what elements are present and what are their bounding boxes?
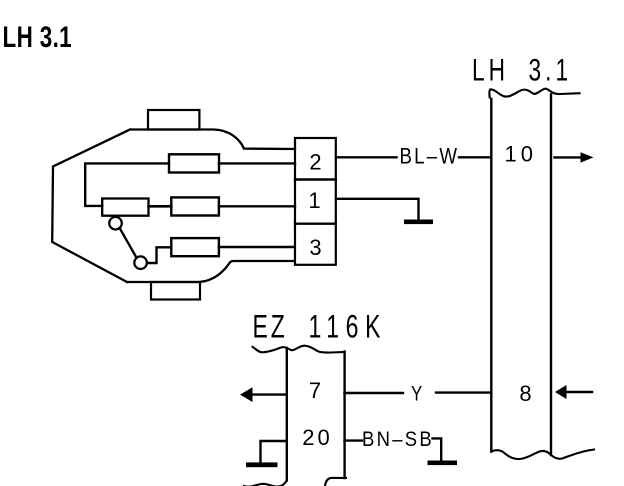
EZ box torn bottom left bbox=[244, 481, 287, 486]
bottom mounting lug bbox=[151, 282, 200, 300]
ground G2 bar bbox=[246, 462, 278, 467]
EZ box left edge bbox=[286, 348, 288, 481]
pin 10 arrowhead bbox=[581, 152, 594, 162]
svg-text:116K: 116K bbox=[309, 309, 388, 345]
svg-text:8: 8 bbox=[519, 381, 531, 406]
pin 8 input arrow line bbox=[567, 391, 593, 393]
wire pin 1 to ground bbox=[336, 199, 419, 220]
switch moving contact c2 bbox=[134, 256, 147, 269]
svg-text:LH: LH bbox=[472, 52, 509, 88]
svg-text:7: 7 bbox=[309, 378, 321, 403]
wire R1 left down to switch box bbox=[85, 163, 169, 206]
svg-text:3.1: 3.1 bbox=[529, 52, 573, 88]
LH box torn top edge bbox=[489, 89, 579, 98]
pin 7 output arrow line bbox=[252, 393, 287, 395]
svg-text:EZ: EZ bbox=[253, 309, 288, 345]
pin 10 output arrow line bbox=[555, 156, 582, 158]
switch pivot contact c1 bbox=[109, 217, 122, 230]
wire R2 right to pin 1 bbox=[219, 205, 295, 207]
switch body box bbox=[102, 199, 148, 216]
resistor R3 (bottom) bbox=[171, 238, 219, 256]
LH box right edge bbox=[550, 95, 552, 456]
connector divider 1/3 bbox=[295, 222, 336, 224]
throttle switch body outline bbox=[52, 130, 295, 283]
resistor R1 (top) bbox=[169, 154, 219, 172]
wire Y to LH pin 8 bbox=[436, 391, 491, 393]
LH box torn bottom edge bbox=[491, 450, 594, 460]
wire pin 20 to ground bbox=[261, 441, 287, 463]
svg-text:BN–SB: BN–SB bbox=[362, 428, 434, 451]
LH box left edge bbox=[490, 99, 492, 452]
resistor R2 (middle) bbox=[171, 197, 219, 215]
wire R3 right to pin 3 bbox=[219, 246, 295, 249]
connector divider 2/1 bbox=[295, 178, 336, 180]
pin 8 arrowhead bbox=[555, 385, 567, 399]
svg-text:BL–W: BL–W bbox=[400, 145, 460, 169]
svg-text:1: 1 bbox=[308, 188, 320, 213]
svg-text:20: 20 bbox=[302, 425, 332, 450]
ground G3 bar bbox=[428, 461, 458, 466]
wire switch box to R2 bbox=[149, 205, 172, 208]
switch lever bbox=[120, 228, 137, 258]
wire pin 20 to BN-SB bbox=[345, 439, 363, 441]
connector block outline bbox=[295, 138, 336, 265]
wire pin 2 to BL-W bbox=[336, 156, 397, 158]
svg-text:LH 3.1: LH 3.1 bbox=[3, 20, 73, 54]
svg-text:10: 10 bbox=[505, 142, 537, 167]
svg-text:2: 2 bbox=[309, 150, 321, 175]
svg-text:Y: Y bbox=[411, 383, 422, 406]
pin 7 arrowhead bbox=[240, 387, 253, 402]
wire BL-W to LH pin 10 bbox=[459, 156, 491, 158]
EZ box torn bottom right bbox=[325, 478, 346, 486]
top mounting lug bbox=[148, 110, 199, 130]
EZ box right edge bbox=[343, 352, 345, 479]
wire R1 right to pin 2 bbox=[219, 162, 295, 164]
wire c2 to R3 bbox=[147, 247, 171, 263]
ground G1 bar bbox=[404, 220, 433, 225]
EZ box torn top edge bbox=[253, 346, 345, 353]
svg-text:3: 3 bbox=[309, 235, 321, 260]
wire BN-SB to ground bbox=[433, 438, 442, 460]
wire pin 7 to Y bbox=[345, 392, 404, 394]
